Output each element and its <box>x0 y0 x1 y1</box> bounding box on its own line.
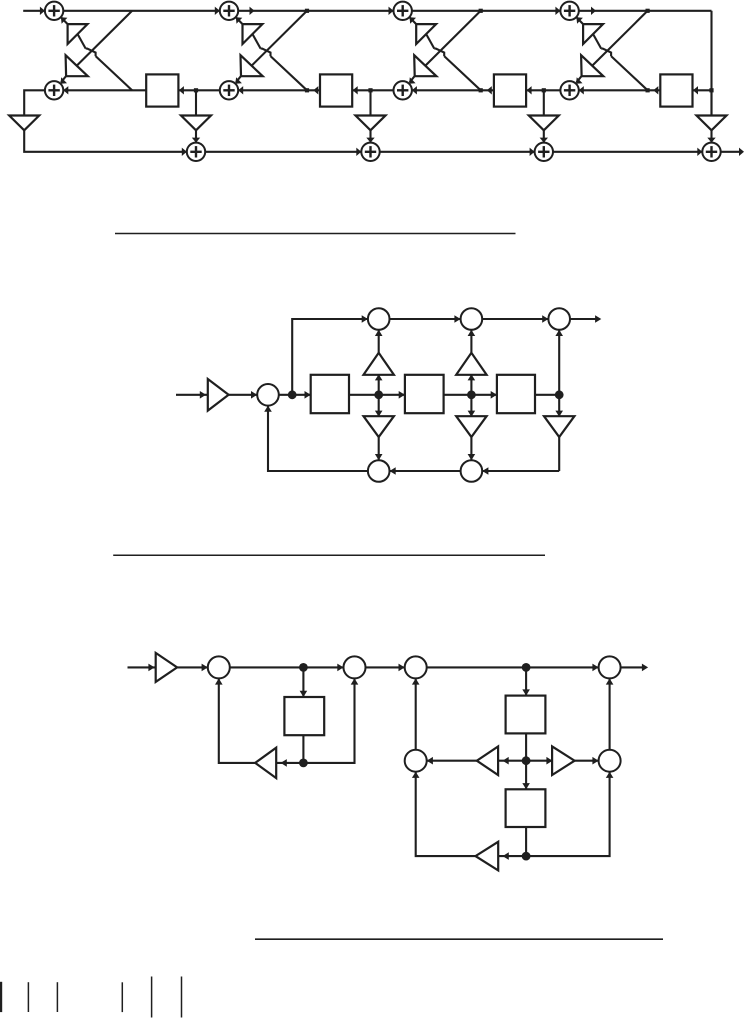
gain v3 ladder triangle <box>529 116 559 131</box>
arrow c-into ampB2 <box>546 757 552 765</box>
gain k1 lower triangle <box>66 55 88 76</box>
arrow bottom rail into adder <box>356 148 361 156</box>
wire m-adder to S1 <box>279 394 311 396</box>
arrow bottom rail into adder <box>182 148 187 156</box>
arrow m-into S1 <box>305 391 311 399</box>
wire m-col2 down stem <box>470 395 472 416</box>
caption rule 1 <box>115 233 516 235</box>
gain c-b1 amp <box>552 746 575 775</box>
wire diagonal up k3 upper <box>426 34 434 49</box>
arrow m-into S2 <box>399 391 405 399</box>
arrow into mid adder 4 <box>579 86 584 94</box>
wire c-C5 up <box>415 678 417 749</box>
gain k4 upper triangle <box>583 24 603 44</box>
delay c-z3 <box>506 789 546 827</box>
wire m-top T2-T3 <box>482 318 548 320</box>
delay z1 <box>146 74 178 106</box>
arrow m-into S3 <box>491 391 497 399</box>
wire ladder v0 from mid adder 1 <box>24 90 45 115</box>
adder top 2 <box>220 2 238 20</box>
arrow into delay 2 <box>353 86 358 94</box>
wire m-col1 apex down <box>378 437 380 460</box>
wire c-SQ1 down <box>302 735 304 763</box>
gain c-a1b amp <box>477 746 498 775</box>
adder m-bottom <box>368 460 390 482</box>
wire c-ampA to C1 <box>219 678 255 763</box>
arrow c-input mid <box>148 664 154 672</box>
registration bar 5 <box>151 977 153 1018</box>
wire m-top T1-T2 <box>390 318 461 320</box>
gain m-b2 up triangle <box>456 353 486 375</box>
junction m-dot <box>555 390 564 399</box>
arrow diag down into mid adder 2 <box>235 77 242 84</box>
wire crossover hop k4 <box>601 49 611 57</box>
arrow c-into C5 <box>427 757 433 765</box>
arrow diag down into mid adder 4 <box>576 77 583 84</box>
wire m-col3 down stem <box>558 395 560 416</box>
arrow after delay exit <box>487 86 492 94</box>
adder c-C5 <box>405 750 427 772</box>
adder c-C6 <box>599 750 621 772</box>
junction top rail <box>305 9 309 13</box>
arrow ladder into bottom adder <box>192 138 200 143</box>
arrow c-into C1 <box>202 664 208 672</box>
wire diagonal down k1 <box>77 11 132 66</box>
junction tap <box>194 88 198 92</box>
wire c-ampB1 to C5 <box>427 760 477 762</box>
arrow after delay exit <box>313 86 318 94</box>
adder m-bottom <box>461 460 483 482</box>
adder top 4 <box>560 2 578 20</box>
arrow c-into C5 bottom <box>412 772 420 778</box>
arrow into delay 1 <box>179 86 184 94</box>
gain v1 ladder triangle <box>181 116 211 131</box>
arrow into mid adder 3 <box>412 86 417 94</box>
wire tap 1 <box>195 90 197 115</box>
arrow into delay 3 <box>527 86 532 94</box>
arrow m-into B1 right <box>390 467 396 475</box>
arrow diag down into mid adder 3 <box>409 77 416 84</box>
junction top rail <box>479 9 483 13</box>
junction mid rail <box>479 88 483 92</box>
arrow c-into ampB1 <box>503 757 509 765</box>
arrow into adder top 2 <box>215 7 220 15</box>
junction mid rail <box>305 88 309 92</box>
junction tap <box>542 88 546 92</box>
arrow m-into T2 <box>454 315 460 323</box>
wire c-SQ2 down <box>525 733 527 760</box>
registration bar 6 <box>181 977 183 1018</box>
arrow c-into SQ3 <box>522 783 530 789</box>
adder mid 4 <box>560 81 578 99</box>
wire m-col2 apex down <box>470 437 472 460</box>
wire c-output <box>621 666 646 668</box>
wire c-fbA right <box>303 678 354 763</box>
arrow after delay exit <box>653 86 658 94</box>
arrow into adder top 1 <box>40 7 45 15</box>
arrow bottom rail into adder <box>530 148 535 156</box>
registration bar 3 <box>56 982 58 1012</box>
arrow m-col1 into B top <box>375 454 383 460</box>
delay c-z2 <box>506 696 546 734</box>
arrow m-col2 into T bottom <box>468 330 476 336</box>
arrow m-into B2 right <box>482 467 488 475</box>
gain k2 upper triangle <box>243 24 263 44</box>
gain m-a1 down triangle <box>364 416 394 437</box>
junction tap corner <box>709 88 713 92</box>
wire c-C6 up <box>609 678 611 749</box>
arrow bottom rail into adder <box>697 148 702 156</box>
wire right vertical feedback <box>710 11 712 116</box>
gain v4 ladder triangle <box>697 116 727 131</box>
arrow into adder top 4 <box>555 7 560 15</box>
junction m-dot0 <box>288 390 297 399</box>
wire stub to mid adder 2 <box>236 76 241 82</box>
junction m-dot <box>374 390 383 399</box>
adder c-C4 <box>599 656 621 678</box>
adder bottom 3 <box>535 143 553 161</box>
wire diagonal up k2 lower <box>271 56 308 90</box>
gain c-b0 input amp <box>156 653 177 682</box>
delay c-z1 <box>284 697 324 735</box>
arrow into mid adder 1 <box>63 86 68 94</box>
arrow after adder top 2 <box>250 7 255 15</box>
wire c-C1 to C2 <box>230 666 344 668</box>
wire diagonal down k4 <box>592 11 647 66</box>
wire diagonal up k4 upper <box>593 34 601 49</box>
arrow c-into C1 bottom <box>215 678 223 684</box>
wire crossover hop k1 <box>86 49 96 57</box>
arrow after adder top 4 <box>591 7 596 15</box>
wire m-col1 tri to T <box>378 330 380 353</box>
adder bottom 2 <box>361 143 379 161</box>
wire m-col2 up stem <box>470 375 472 395</box>
wire diagonal up k2 upper <box>253 34 261 49</box>
wire bottom rail <box>205 151 702 153</box>
arrow c-into C6 bottom <box>606 772 614 778</box>
caption rule 3 <box>255 938 663 940</box>
arrow diag up into top adder 2 <box>236 17 243 24</box>
wire c-bot right <box>526 772 610 856</box>
arrow diag up into top adder 3 <box>410 17 417 24</box>
arrow m-feedback into adder <box>264 406 272 412</box>
wire stub to mid adder 3 <box>410 76 415 82</box>
adder m-top1 <box>368 308 390 330</box>
arrow into adder top 3 <box>389 7 394 15</box>
wire c-dotB2 down <box>525 761 527 790</box>
arrow ladder into bottom adder <box>540 138 548 143</box>
delay m-z3 <box>497 375 535 413</box>
arrow c-into C3 <box>399 664 405 672</box>
delay z3 <box>494 74 526 106</box>
wire m-corner up <box>292 319 368 395</box>
gain k2 lower triangle <box>241 55 263 76</box>
junction c-dotB <box>522 663 531 672</box>
wire diagonal down k2 <box>252 11 307 66</box>
wire stub to top adder 4 <box>577 18 583 25</box>
wire c-mid left <box>498 760 526 762</box>
arrow c-into SQ2 <box>522 689 530 695</box>
wire m-S2 to S3 <box>444 394 497 396</box>
wire c-bot left <box>498 855 526 857</box>
wire m-col3 up <box>558 330 560 395</box>
junction mid rail <box>646 88 650 92</box>
arrow c-into ampB3 <box>503 852 509 860</box>
adder m-top3 <box>548 308 570 330</box>
arrow output <box>739 148 744 156</box>
arrow c-into C4 bottom <box>606 678 614 684</box>
wire c-C3 to C4 <box>427 666 599 668</box>
wire m-input <box>176 394 208 396</box>
wire c-dotA down <box>302 667 304 697</box>
wire m-col3 apex down <box>558 437 560 471</box>
adder m-input <box>257 384 279 406</box>
wire m-col1 up stem <box>378 375 380 395</box>
arrow m-output <box>595 315 601 323</box>
arrow c-output <box>642 664 648 672</box>
arrow m-col1 into T bottom <box>375 330 383 336</box>
arrow c-into C6 <box>592 757 598 765</box>
arrow ladder into bottom adder <box>707 138 715 143</box>
arrow ladder into bottom adder <box>366 138 374 143</box>
arrow diag up into top adder 1 <box>61 17 68 24</box>
gain k1 upper triangle <box>68 24 88 44</box>
wire m-col2 tri to T <box>470 330 472 353</box>
adder top 1 <box>45 2 63 20</box>
arrow diag down into mid adder 1 <box>61 77 68 84</box>
arrow c-into C4 <box>592 664 598 672</box>
wire tap 2 <box>369 90 371 115</box>
wire stub to top adder 2 <box>236 18 242 25</box>
arrow m-col1 up into tri <box>375 374 383 380</box>
arrow m-col2 up into tri <box>468 374 476 380</box>
adder top 3 <box>394 2 412 20</box>
arrow c-into ampA <box>281 759 287 767</box>
adder m-top2 <box>461 308 483 330</box>
gain k3 upper triangle <box>416 24 436 44</box>
junction c-dotB2 <box>522 756 531 765</box>
junction tap <box>368 88 372 92</box>
arrow m-col2 down into tri <box>468 411 476 417</box>
wire crossover hop k2 <box>261 49 271 57</box>
gain m-a3 down triangle <box>544 416 574 437</box>
wire c-ampB2 to C6 <box>575 760 599 762</box>
arrow m-col1 down into tri <box>375 411 383 417</box>
wire stub to mid adder 1 <box>61 76 66 82</box>
arrow m-into T1 <box>362 315 368 323</box>
wire ladder drop 3 <box>543 130 545 142</box>
gain m-b1 up triangle <box>364 353 394 375</box>
adder mid 3 <box>394 81 412 99</box>
wire ladder drop 1 <box>195 130 197 142</box>
arrow diag up into top adder 4 <box>576 17 583 24</box>
wire ladder drop 4 <box>710 130 712 142</box>
wire stub to top adder 3 <box>410 18 416 25</box>
wire stub to top adder 1 <box>61 18 67 25</box>
registration bar 1 <box>0 982 2 1012</box>
wire c-mid right <box>526 760 552 762</box>
gain v0 ladder triangle <box>9 116 39 131</box>
wire tap 3 <box>543 90 545 115</box>
arrow c-into C2 bottom <box>351 678 359 684</box>
wire output <box>721 151 740 153</box>
wire m-col3 bottom corner <box>482 470 559 472</box>
wire c-fbA left <box>276 762 303 764</box>
wire diagonal up k3 lower <box>444 56 481 90</box>
adder c-C3 <box>405 656 427 678</box>
junction m-dot <box>467 390 476 399</box>
arrow m-input mid <box>200 391 206 399</box>
wire m-feedback left <box>268 406 368 471</box>
wire top-rail input <box>23 10 45 12</box>
junction c-dotA <box>299 663 308 672</box>
arrow into delay 4 <box>693 86 698 94</box>
gain m-b0 input amp <box>208 379 229 411</box>
arrow m-col3 into T bottom <box>555 330 563 336</box>
wire c-SQ3 down <box>525 827 527 856</box>
gain m-a2 down triangle <box>456 416 486 437</box>
gain k3 lower triangle <box>414 55 436 76</box>
wire c-input <box>128 666 156 668</box>
wire c-dotB down <box>525 667 527 695</box>
arrow m-into adder <box>251 391 257 399</box>
wire m-output <box>570 318 598 320</box>
wire top rail <box>63 10 711 12</box>
junction c-dotB3 <box>522 852 531 861</box>
wire c-C2 to C3 <box>366 666 405 668</box>
wire crossover hop k3 <box>434 49 444 57</box>
adder bottom 4 <box>702 143 720 161</box>
arrow m-into T3 <box>542 315 548 323</box>
gain k4 lower triangle <box>581 55 603 76</box>
wire m-S1 to S2 <box>349 394 405 396</box>
wire m-col1 down stem <box>378 395 380 416</box>
wire diagonal up k1 upper <box>78 34 86 49</box>
gain c-a2 amp <box>476 842 499 871</box>
gain c-a1 amp <box>255 748 276 778</box>
wire ladder v0 down to bottom rail <box>24 130 187 152</box>
registration bar 4 <box>121 982 123 1012</box>
junction top rail <box>646 9 650 13</box>
adder c-C2 <box>344 656 366 678</box>
wire c-ampB3 to C5 <box>416 772 476 856</box>
delay z2 <box>320 74 352 106</box>
delay m-z2 <box>405 375 444 413</box>
junction c-dotA2 <box>299 759 308 768</box>
adder mid 2 <box>220 81 238 99</box>
wire mid rail <box>63 89 711 91</box>
wire m-S3 to dot3 <box>535 394 559 396</box>
wire c-amp to C1 <box>177 666 208 668</box>
gain v2 ladder triangle <box>356 116 386 131</box>
wire m-amp to adder <box>228 394 257 396</box>
arrow into mid adder 2 <box>238 86 243 94</box>
wire diagonal up k4 lower <box>611 56 648 90</box>
arrow m-col3 down into tri <box>555 411 563 417</box>
wire diagonal up k1 lower <box>96 56 133 90</box>
adder c-C1 <box>208 656 230 678</box>
arrow c-into C2 <box>337 664 343 672</box>
adder bottom 1 <box>187 143 205 161</box>
arrow c-into SQ1 <box>300 691 308 697</box>
adder mid 1 <box>45 81 63 99</box>
wire stub to mid adder 4 <box>577 76 582 82</box>
delay z4 <box>660 74 692 106</box>
arrow m-col2 into B top <box>468 454 476 460</box>
wire m-B2 to B1 <box>390 470 461 472</box>
wire diagonal down k3 <box>425 11 480 66</box>
delay m-z1 <box>311 375 349 413</box>
registration bar 2 <box>27 982 29 1012</box>
caption rule 2 <box>113 554 545 556</box>
wire ladder drop 2 <box>369 130 371 142</box>
arrow c-into C3 bottom <box>412 678 420 684</box>
wire tap 4 <box>710 90 712 115</box>
